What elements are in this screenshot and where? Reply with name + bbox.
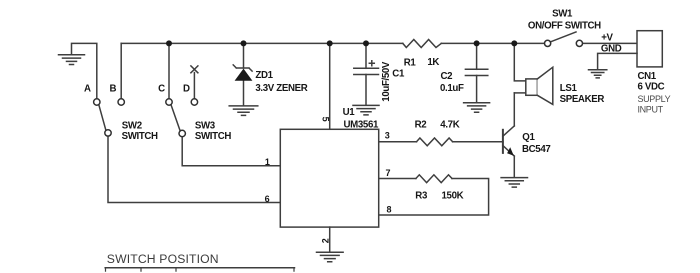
svg-text:CN1: CN1 [638,71,657,82]
svg-text:GND: GND [601,43,622,54]
svg-text:6 VDC: 6 VDC [638,82,665,93]
svg-text:D: D [183,83,190,94]
svg-text:5: 5 [321,117,331,122]
svg-text:LS1: LS1 [560,83,578,94]
svg-text:150K: 150K [442,191,464,202]
svg-text:0.1uF: 0.1uF [440,83,464,94]
svg-text:ZD1: ZD1 [255,70,273,81]
svg-text:SWITCH: SWITCH [195,131,231,142]
svg-text:3: 3 [385,131,390,141]
svg-text:R3: R3 [415,191,428,202]
svg-text:U1: U1 [343,107,356,118]
svg-text:SW2: SW2 [122,120,142,131]
svg-text:R2: R2 [415,119,427,130]
svg-text:SPEAKER: SPEAKER [560,94,605,105]
svg-text:SUPPLY: SUPPLY [638,94,671,104]
svg-text:C1: C1 [392,69,405,80]
svg-text:SW1: SW1 [552,8,573,19]
svg-text:ON/OFF SWITCH: ON/OFF SWITCH [528,21,601,32]
svg-text:R1: R1 [404,57,417,68]
svg-text:3.3V ZENER: 3.3V ZENER [255,83,307,94]
svg-text:A: A [84,84,91,95]
svg-text:Q1: Q1 [522,132,535,143]
svg-text:UM3561: UM3561 [344,120,379,131]
svg-text:SWITCH: SWITCH [122,131,158,142]
svg-text:INPUT: INPUT [638,105,664,115]
svg-text:+V: +V [601,33,613,44]
svg-text:2: 2 [320,238,330,243]
svg-text:BC547: BC547 [522,144,550,155]
svg-text:C2: C2 [441,71,453,82]
svg-text:10uF/50V: 10uF/50V [381,61,392,102]
svg-text:B: B [110,84,117,95]
svg-text:SW3: SW3 [195,120,216,131]
svg-text:C: C [158,83,165,94]
svg-text:8: 8 [387,205,392,215]
svg-text:1: 1 [265,157,270,167]
svg-text:4.7K: 4.7K [440,119,459,130]
svg-text:6: 6 [265,194,270,204]
svg-text:1K: 1K [427,57,439,68]
svg-text:SWITCH POSITION: SWITCH POSITION [107,252,219,266]
svg-text:7: 7 [386,168,391,178]
